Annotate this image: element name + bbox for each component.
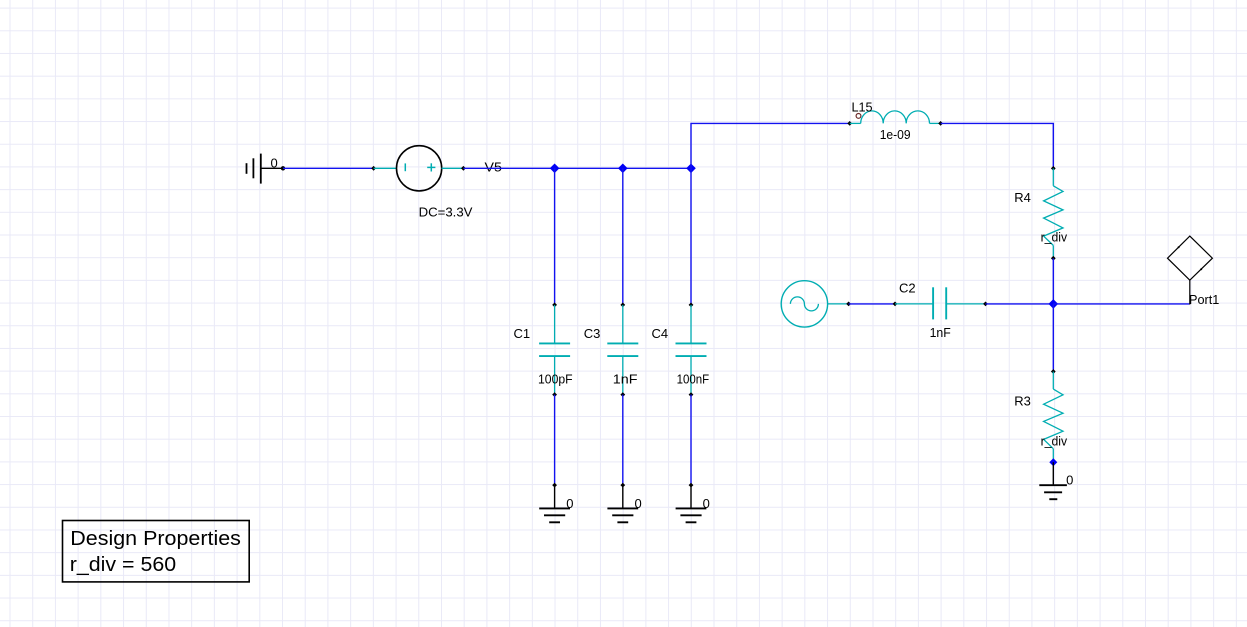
svg-text:0: 0	[566, 496, 573, 511]
V5 lead (minus side)	[374, 167, 397, 169]
wire: L15 to R4 top	[941, 123, 1054, 168]
pin marker C2 pin1	[893, 302, 898, 307]
wire: C4 to ground	[690, 395, 692, 486]
svg-text:0: 0	[703, 496, 710, 511]
wire: C1 to ground	[554, 395, 556, 486]
svg-text:100nF: 100nF	[677, 371, 710, 386]
capacitor C4	[676, 303, 707, 398]
junction node at C4	[686, 164, 696, 174]
port Port1	[1168, 236, 1213, 304]
svg-text:0: 0	[271, 155, 278, 170]
capacitor C2	[895, 287, 986, 319]
wire: C4 junction up and right to L15	[691, 123, 850, 168]
pin marker L15 pin2	[938, 121, 943, 126]
junction node at C1	[550, 164, 560, 174]
svg-text:C3: C3	[584, 326, 601, 341]
svg-text:L15: L15	[852, 100, 873, 115]
svg-text:C1: C1	[514, 326, 531, 341]
ground (net 0, below C4)	[676, 483, 707, 523]
svg-text:1nF: 1nF	[930, 325, 951, 340]
wire: left ground to V5 minus pin	[283, 167, 374, 169]
junction node at C3	[618, 164, 628, 174]
voltage source V5	[397, 146, 442, 191]
pin marker V5 pin-	[371, 166, 376, 171]
wire: SRC1 to C2	[849, 303, 895, 305]
svg-text:0: 0	[635, 496, 642, 511]
inductor L15	[850, 111, 941, 124]
svg-text:1nF: 1nF	[613, 371, 638, 386]
wire: bus down to C3	[622, 168, 624, 305]
pin marker SRC1	[846, 302, 851, 307]
ground (net 0, below C1)	[539, 483, 570, 523]
ground (net 0, below C3)	[607, 483, 638, 523]
svg-text:Port1: Port1	[1189, 292, 1219, 307]
pin marker R4 pin1	[1051, 166, 1056, 171]
ground (net 0, below R3)	[1039, 462, 1067, 499]
wire: C3 to ground	[622, 395, 624, 486]
pin marker V5 pin+	[461, 166, 466, 171]
pin marker R4 pin2	[1051, 256, 1056, 261]
junction node R3 bottom	[1049, 458, 1057, 466]
svg-text:DC=3.3V: DC=3.3V	[419, 204, 473, 219]
pin marker C2 pin2	[983, 302, 988, 307]
ac source SRC1	[781, 281, 848, 327]
wire: C2 to mid junction	[986, 303, 1054, 305]
pin marker R3 pin1	[1051, 369, 1056, 374]
svg-text:r_div = 560: r_div = 560	[70, 554, 176, 576]
V5 lead (plus side)	[442, 167, 464, 169]
svg-text:V5: V5	[485, 160, 502, 175]
capacitor C3	[607, 303, 638, 398]
ground (net 0, left of V5)	[247, 154, 285, 184]
svg-text:R4: R4	[1014, 190, 1031, 205]
wire: bus down to C4	[690, 168, 692, 305]
wire: V5 to bus (through junctions)	[463, 167, 691, 169]
resistor R4	[1044, 168, 1063, 258]
svg-text:Design Properties: Design Properties	[70, 528, 241, 550]
pin marker L15 pin1	[847, 121, 852, 126]
design properties box	[63, 521, 250, 582]
svg-text:C2: C2	[899, 280, 916, 295]
wire: mid junction down to R3	[1052, 304, 1054, 372]
svg-text:C4: C4	[652, 326, 669, 341]
svg-text:r_div: r_div	[1041, 434, 1068, 449]
resistor R3	[1044, 372, 1063, 463]
svg-text:r_div: r_div	[1041, 230, 1068, 245]
wire: mid junction to Port1	[1053, 303, 1190, 305]
wire: R4 bottom to mid junction	[1052, 258, 1054, 304]
svg-text:R3: R3	[1014, 394, 1031, 409]
svg-text:1e-09: 1e-09	[880, 127, 911, 142]
wire: bus down to C1	[554, 168, 556, 305]
svg-text:100pF: 100pF	[538, 371, 573, 386]
junction node mid	[1049, 299, 1059, 309]
svg-text:0: 0	[1066, 473, 1073, 488]
capacitor C1	[539, 303, 570, 398]
